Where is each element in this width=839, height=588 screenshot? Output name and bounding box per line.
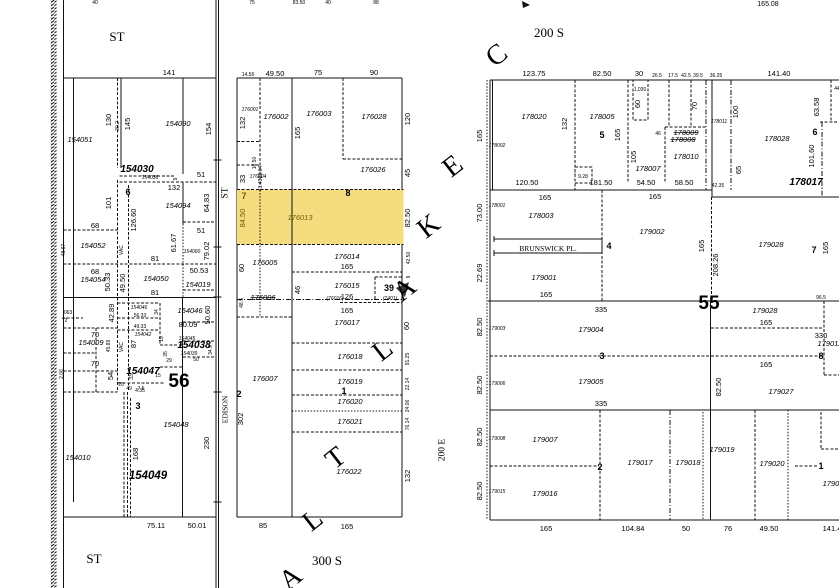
svg-text:17.5: 17.5 xyxy=(668,73,678,79)
svg-text:42.89: 42.89 xyxy=(107,304,116,323)
svg-text:154038: 154038 xyxy=(177,340,211,351)
svg-text:91.25: 91.25 xyxy=(405,353,411,366)
parcel line x73 xyxy=(73,78,75,502)
svg-text:154051: 154051 xyxy=(67,135,92,144)
svg-text:60: 60 xyxy=(633,100,642,108)
svg-text:56: 56 xyxy=(168,371,189,392)
svg-text:178008: 178008 xyxy=(670,135,696,144)
svg-text:130: 130 xyxy=(104,114,113,127)
dashed y395 xyxy=(292,394,402,396)
svg-text:165: 165 xyxy=(649,192,662,201)
svg-text:181.50: 181.50 xyxy=(590,178,613,187)
Brunswick south xyxy=(494,252,602,254)
svg-text:83.50: 83.50 xyxy=(293,0,306,6)
right block north line xyxy=(490,79,839,81)
svg-text:165: 165 xyxy=(539,193,552,202)
dashed x628 xyxy=(627,80,629,183)
svg-text:14.56: 14.56 xyxy=(242,72,255,78)
svg-text:96.5: 96.5 xyxy=(816,295,826,301)
svg-text:15: 15 xyxy=(155,373,161,379)
left block south line xyxy=(64,516,217,518)
dashed y322 xyxy=(183,321,216,323)
block 55 south line xyxy=(488,300,839,302)
svg-text:154050: 154050 xyxy=(143,274,169,283)
svg-text:ST: ST xyxy=(109,29,124,44)
svg-text:154054: 154054 xyxy=(80,275,105,284)
svg-text:33: 33 xyxy=(129,374,135,380)
svg-text:88: 88 xyxy=(373,0,379,6)
svg-text:87: 87 xyxy=(129,340,138,348)
svg-text:79.02: 79.02 xyxy=(202,242,211,261)
dashed x343 xyxy=(342,78,344,159)
street tick y392 xyxy=(214,391,222,393)
svg-text:64.83: 64.83 xyxy=(202,194,211,213)
dashed corner y449 xyxy=(821,448,839,450)
dashed y141 xyxy=(237,141,260,143)
dashed line x117 lower xyxy=(117,180,119,392)
dashed y343 xyxy=(292,342,402,344)
svg-text:179005: 179005 xyxy=(578,377,604,386)
svg-text:154010: 154010 xyxy=(65,453,91,462)
svg-text:46: 46 xyxy=(655,131,661,137)
svg-text:179002: 179002 xyxy=(639,227,665,236)
svg-text:154: 154 xyxy=(204,123,213,136)
svg-text:75: 75 xyxy=(249,0,255,6)
svg-text:7: 7 xyxy=(241,191,246,201)
svg-text:141.4: 141.4 xyxy=(823,524,839,533)
line x121 xyxy=(120,78,122,168)
svg-text:179017: 179017 xyxy=(627,458,653,467)
parcel 176013 south dashed xyxy=(237,244,404,246)
svg-text:68: 68 xyxy=(91,221,99,230)
street tick y247 xyxy=(214,246,222,248)
svg-text:154094: 154094 xyxy=(165,201,190,210)
dashed y432 xyxy=(292,431,402,433)
svg-text:9.28: 9.28 xyxy=(578,174,588,180)
middle block south line xyxy=(237,516,402,518)
svg-text:154030: 154030 xyxy=(120,164,154,175)
dashed y264 xyxy=(64,263,217,265)
dash-dot x731 xyxy=(730,80,732,190)
svg-text:179028: 179028 xyxy=(758,240,784,249)
dashed y222 xyxy=(183,221,216,223)
svg-text:81: 81 xyxy=(151,288,159,297)
svg-text:76: 76 xyxy=(724,524,732,533)
svg-text:179015: 179015 xyxy=(489,489,506,495)
svg-text:76.14: 76.14 xyxy=(405,418,411,431)
svg-text:80.09: 80.09 xyxy=(179,320,198,329)
street tick y160 xyxy=(214,159,222,161)
small arrow mark top xyxy=(522,1,530,8)
svg-text:50.01: 50.01 xyxy=(188,521,207,530)
dashed y375 xyxy=(824,374,839,376)
dashed x665 xyxy=(664,127,666,183)
svg-text:154049: 154049 xyxy=(129,470,168,482)
svg-text:100: 100 xyxy=(731,106,740,119)
svg-text:178011: 178011 xyxy=(711,119,728,125)
svg-text:302: 302 xyxy=(236,413,245,426)
svg-text:105: 105 xyxy=(629,151,638,164)
dashed y328 xyxy=(64,327,118,329)
svg-text:22.69: 22.69 xyxy=(475,264,484,283)
svg-text:165: 165 xyxy=(760,360,773,369)
svg-text:29: 29 xyxy=(166,358,172,364)
svg-text:165: 165 xyxy=(540,524,553,533)
svg-text:178017: 178017 xyxy=(789,177,823,188)
svg-text:VAC: VAC xyxy=(119,342,125,352)
svg-text:335: 335 xyxy=(595,399,608,408)
solid y410 xyxy=(490,409,839,411)
line x710 low xyxy=(710,301,712,520)
left block small cluster 154046/154042 xyxy=(118,302,161,304)
dashed x602 xyxy=(601,190,603,301)
dashed x600 xyxy=(599,410,601,520)
dashed x711 mid xyxy=(710,197,712,301)
svg-text:120.50: 120.50 xyxy=(516,178,539,187)
svg-text:200 S: 200 S xyxy=(534,25,564,40)
dashed parcel 154036 top xyxy=(120,175,176,177)
section line y197 thick xyxy=(712,196,839,198)
dashed y353 xyxy=(64,352,97,354)
svg-text:75: 75 xyxy=(314,68,322,77)
svg-text:165: 165 xyxy=(697,240,706,253)
svg-text:179004: 179004 xyxy=(578,325,603,334)
svg-text:335: 335 xyxy=(595,305,608,314)
svg-text:154042: 154042 xyxy=(135,332,152,338)
dash-dot x670 xyxy=(669,410,671,520)
svg-text:17902: 17902 xyxy=(823,479,839,488)
small box 9.28 xyxy=(575,167,592,183)
right block south line xyxy=(490,519,839,521)
dotted street edge x487 xyxy=(486,80,488,520)
svg-text:178001: 178001 xyxy=(489,203,506,209)
dash-dot y299 xyxy=(237,299,402,301)
svg-text:165: 165 xyxy=(341,522,354,531)
svg-text:90: 90 xyxy=(370,68,378,77)
svg-text:75.11: 75.11 xyxy=(147,521,165,530)
svg-text:56.33: 56.33 xyxy=(134,313,147,319)
svg-text:3: 3 xyxy=(599,351,604,361)
svg-text:165.08: 165.08 xyxy=(757,1,779,8)
dotted y411 xyxy=(292,410,402,412)
svg-text:165: 165 xyxy=(293,127,302,140)
svg-text:49.50: 49.50 xyxy=(266,69,285,78)
svg-text:168: 168 xyxy=(131,448,140,461)
svg-text:154048: 154048 xyxy=(163,420,189,429)
svg-text:40: 40 xyxy=(92,0,98,6)
svg-text:34.9: 34.9 xyxy=(208,345,214,355)
dashed x691 xyxy=(690,80,692,127)
svg-text:26.5: 26.5 xyxy=(652,73,662,79)
Edison St west line xyxy=(215,0,217,588)
svg-text:5: 5 xyxy=(599,130,604,140)
small box 60 xyxy=(633,80,648,120)
svg-text:154060: 154060 xyxy=(184,249,201,255)
dashed y290 xyxy=(183,289,216,291)
svg-text:178020: 178020 xyxy=(521,112,547,121)
svg-text:179028: 179028 xyxy=(752,306,778,315)
line x183 lower xyxy=(182,297,184,517)
svg-text:176019: 176019 xyxy=(337,377,363,386)
svg-text:123.75: 123.75 xyxy=(523,69,546,78)
middle block east line xyxy=(401,78,403,517)
dashed x260 xyxy=(259,78,261,187)
dashed y230 xyxy=(64,229,118,231)
dotted x788 xyxy=(787,410,789,520)
dotted x703 xyxy=(702,412,704,520)
svg-text:84.50: 84.50 xyxy=(238,209,247,228)
dashed y341 xyxy=(183,340,216,342)
svg-text:82.50: 82.50 xyxy=(475,428,484,447)
Brunswick east xyxy=(601,239,603,253)
survey arrowhead near letter A xyxy=(396,282,409,297)
street tick y297 xyxy=(214,296,222,298)
svg-text:179006: 179006 xyxy=(489,381,506,387)
dashed y122 xyxy=(820,121,839,123)
svg-text:154090: 154090 xyxy=(165,119,191,128)
svg-text:82.50: 82.50 xyxy=(475,318,484,337)
svg-text:154046: 154046 xyxy=(177,306,203,315)
svg-text:19: 19 xyxy=(159,336,165,342)
dashed x669 xyxy=(668,80,670,127)
svg-text:42.50: 42.50 xyxy=(406,252,412,265)
svg-text:179001: 179001 xyxy=(531,273,556,282)
dashed y328 xyxy=(711,327,824,329)
svg-text:40: 40 xyxy=(325,0,331,6)
svg-text:44: 44 xyxy=(834,86,839,92)
svg-text:1: 1 xyxy=(818,461,823,471)
svg-text:120: 120 xyxy=(403,113,412,126)
dashed y272 xyxy=(292,271,402,273)
svg-text:55: 55 xyxy=(698,293,720,314)
dashed box parcel 39 xyxy=(375,276,402,278)
svg-text:176007: 176007 xyxy=(252,374,278,383)
svg-text:82.50: 82.50 xyxy=(475,482,484,501)
svg-text:51: 51 xyxy=(197,170,205,179)
svg-text:4: 4 xyxy=(606,241,611,251)
svg-text:50.60: 50.60 xyxy=(203,306,212,325)
svg-text:132: 132 xyxy=(403,470,412,483)
svg-text:176002: 176002 xyxy=(263,112,289,121)
dashed y182 xyxy=(120,181,217,183)
dashed y127 xyxy=(665,126,706,128)
svg-text:42.35: 42.35 xyxy=(712,183,725,189)
svg-text:39.5: 39.5 xyxy=(693,73,703,79)
svg-text:176001: 176001 xyxy=(242,107,259,113)
svg-text:81: 81 xyxy=(151,254,159,263)
svg-text:1,030: 1,030 xyxy=(634,87,647,93)
dashed x824 xyxy=(823,301,825,375)
svg-text:179003: 179003 xyxy=(489,326,506,332)
svg-text:61.67: 61.67 xyxy=(169,234,178,253)
svg-text:7: 7 xyxy=(811,245,816,255)
svg-text:165: 165 xyxy=(475,130,484,143)
svg-text:49: 49 xyxy=(126,386,132,392)
svg-text:300 S: 300 S xyxy=(312,553,342,568)
dashed corner x821 xyxy=(820,412,822,449)
svg-text:178002: 178002 xyxy=(489,143,506,149)
svg-text:178005: 178005 xyxy=(589,112,615,121)
svg-text:178028: 178028 xyxy=(764,134,790,143)
svg-text:82.50: 82.50 xyxy=(403,209,412,228)
svg-text:49.50: 49.50 xyxy=(118,274,127,293)
svg-text:179027: 179027 xyxy=(768,387,794,396)
svg-text:ST: ST xyxy=(86,551,101,566)
svg-text:9: 9 xyxy=(173,177,179,180)
svg-text:176004: 176004 xyxy=(250,174,267,180)
svg-text:154019: 154019 xyxy=(185,280,211,289)
svg-text:BRUNSWICK PL.: BRUNSWICK PL. xyxy=(519,244,577,253)
svg-text:178010: 178010 xyxy=(673,152,699,161)
svg-text:176017: 176017 xyxy=(334,318,360,327)
svg-text:176028: 176028 xyxy=(361,112,387,121)
middle block west line xyxy=(236,78,238,517)
svg-text:65: 65 xyxy=(734,166,743,174)
svg-text:6: 6 xyxy=(125,187,130,197)
middle block north line xyxy=(237,77,402,79)
svg-text:176018: 176018 xyxy=(337,352,363,361)
svg-text:46: 46 xyxy=(293,286,302,294)
svg-text:68: 68 xyxy=(91,267,99,276)
svg-text:132: 132 xyxy=(560,118,569,131)
svg-text:176015: 176015 xyxy=(334,281,360,290)
dashed y392 xyxy=(64,391,118,393)
svg-text:82.50: 82.50 xyxy=(593,69,612,78)
svg-text:101.60: 101.60 xyxy=(807,145,816,168)
svg-text:141.40: 141.40 xyxy=(768,69,791,78)
svg-text:154046: 154046 xyxy=(131,305,148,311)
svg-text:VAC: VAC xyxy=(119,245,125,255)
svg-text:178007: 178007 xyxy=(635,164,661,173)
dashed y466 xyxy=(490,465,599,467)
svg-text:101: 101 xyxy=(104,197,113,210)
svg-text:73.00: 73.00 xyxy=(475,204,484,223)
svg-text:154009: 154009 xyxy=(78,338,104,347)
svg-text:82.50: 82.50 xyxy=(475,376,484,395)
svg-text:179007: 179007 xyxy=(532,435,558,444)
svg-text:176005: 176005 xyxy=(252,258,278,267)
svg-text:176020: 176020 xyxy=(337,397,363,406)
svg-text:85: 85 xyxy=(259,521,267,530)
svg-text:165: 165 xyxy=(821,242,830,255)
svg-text:60: 60 xyxy=(402,322,411,330)
svg-text:154036: 154036 xyxy=(142,175,159,181)
street tick y502 xyxy=(214,501,222,503)
dashed y317 xyxy=(237,316,292,318)
svg-text:104.84: 104.84 xyxy=(622,524,645,533)
svg-text:2.06: 2.06 xyxy=(59,369,65,379)
svg-text:82.50: 82.50 xyxy=(714,378,723,397)
dashed y356 xyxy=(490,355,824,357)
svg-text:8: 8 xyxy=(818,351,823,361)
svg-text:2: 2 xyxy=(236,389,241,399)
svg-text:154052: 154052 xyxy=(80,241,106,250)
svg-text:145: 145 xyxy=(123,118,132,131)
svg-text:179020: 179020 xyxy=(759,459,785,468)
svg-text:176003: 176003 xyxy=(306,109,332,118)
right block west line xyxy=(489,80,491,520)
svg-text:165: 165 xyxy=(341,262,354,271)
x183 mid solid xyxy=(182,182,184,224)
svg-text:132: 132 xyxy=(168,183,181,192)
svg-text:6: 6 xyxy=(812,127,817,137)
dotted x260 xyxy=(259,190,261,317)
svg-text:132: 132 xyxy=(238,117,247,130)
svg-text:51: 51 xyxy=(197,226,205,235)
hatched railroad strip at far left xyxy=(51,0,57,588)
svg-text:179018: 179018 xyxy=(675,458,701,467)
svg-text:48.5: 48.5 xyxy=(239,298,245,308)
dashed y383 xyxy=(118,382,165,384)
svg-text:176026: 176026 xyxy=(360,165,386,174)
svg-text:200 E: 200 E xyxy=(438,439,448,462)
svg-text:4.35: 4.35 xyxy=(135,388,145,394)
left block north line xyxy=(64,77,217,79)
svg-text:50.53: 50.53 xyxy=(190,266,209,275)
west boundary line xyxy=(63,0,65,588)
dashed y371 xyxy=(64,370,118,372)
svg-text:60: 60 xyxy=(237,264,246,272)
dashed x575 xyxy=(574,80,576,190)
svg-text:70: 70 xyxy=(91,359,99,368)
dashed x96 xyxy=(95,328,97,392)
svg-text:49.33: 49.33 xyxy=(134,324,147,330)
dashed y357 xyxy=(183,356,216,358)
svg-text:54.50: 54.50 xyxy=(637,178,656,187)
svg-text:179019: 179019 xyxy=(709,445,735,454)
svg-text:30: 30 xyxy=(635,69,643,78)
svg-text:70: 70 xyxy=(690,102,699,110)
dashed y159 xyxy=(343,158,402,160)
Edison St east line xyxy=(218,0,220,588)
svg-text:50: 50 xyxy=(682,524,690,533)
svg-text:178003: 178003 xyxy=(528,211,554,220)
svg-text:230: 230 xyxy=(202,437,211,450)
svg-text:20: 20 xyxy=(118,382,124,388)
svg-text:45: 45 xyxy=(403,169,412,177)
dash-dot x822 xyxy=(821,122,823,197)
svg-text:141: 141 xyxy=(163,68,176,77)
line x292 xyxy=(291,78,293,517)
svg-text:22.14: 22.14 xyxy=(405,378,411,391)
dashed y165 xyxy=(237,164,260,166)
svg-text:36.35: 36.35 xyxy=(710,73,723,79)
svg-text:63.58: 63.58 xyxy=(812,98,821,117)
svg-text:30.2: 30.2 xyxy=(115,121,121,131)
svg-text:176014: 176014 xyxy=(334,252,359,261)
svg-text:ST: ST xyxy=(221,187,231,198)
svg-text:45.89: 45.89 xyxy=(106,340,112,353)
solid y297 xyxy=(64,297,217,299)
dotted x183 xyxy=(182,224,184,297)
dashed x831 xyxy=(830,80,832,122)
svg-text:35: 35 xyxy=(163,351,169,357)
dashed pair x124 xyxy=(123,392,125,517)
svg-text:EDISON: EDISON xyxy=(221,395,230,423)
svg-text:58.50: 58.50 xyxy=(675,178,694,187)
line x183 upper xyxy=(182,78,184,174)
svg-text:3: 3 xyxy=(135,401,140,411)
svg-text:063: 063 xyxy=(64,310,73,316)
svg-text:176013: 176013 xyxy=(287,213,313,222)
parcel 176013 north dashed xyxy=(237,189,404,191)
svg-text:54: 54 xyxy=(106,372,115,380)
dashed x128 xyxy=(128,185,130,392)
right block west double xyxy=(492,80,494,190)
svg-text:176021: 176021 xyxy=(337,417,362,426)
svg-text:176006: 176006 xyxy=(250,293,276,302)
dashed y370 xyxy=(292,369,402,371)
